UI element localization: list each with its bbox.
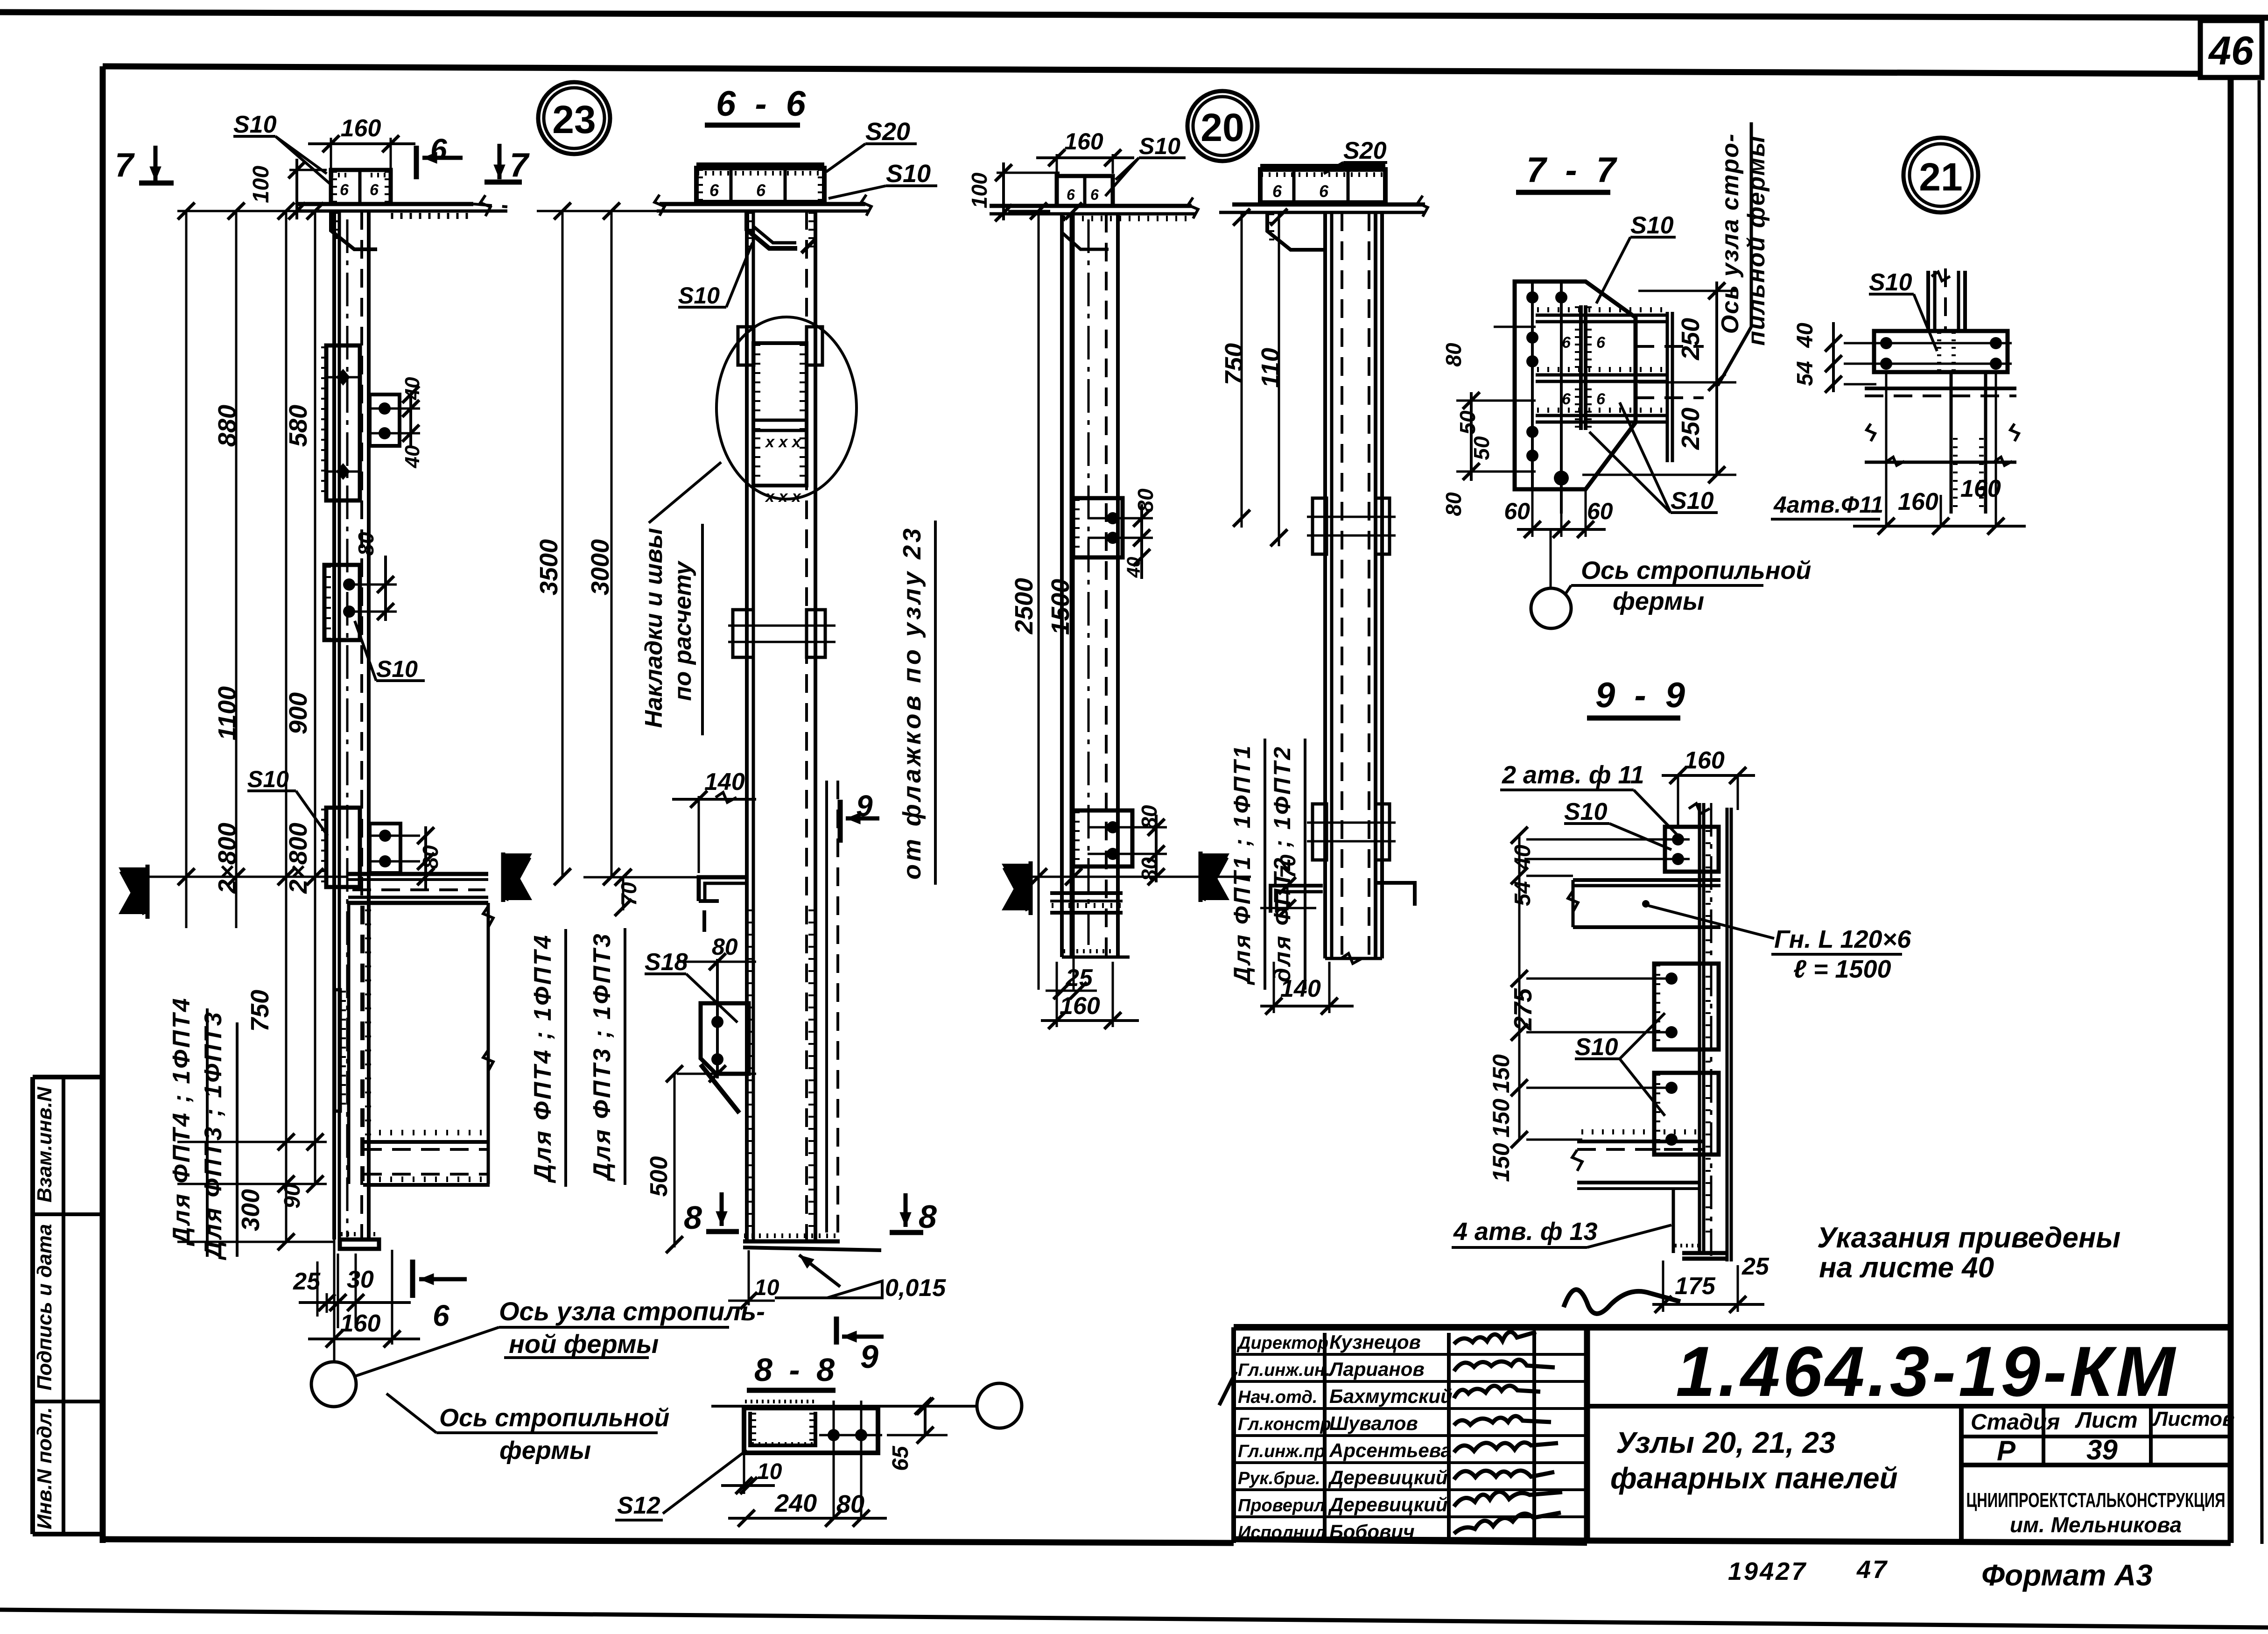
svg-text:по расчету: по расчету	[669, 560, 696, 701]
svg-text:Деревицкий: Деревицкий	[1328, 1466, 1447, 1488]
svg-text:6: 6	[756, 181, 766, 200]
svg-text:фермы: фермы	[1613, 587, 1704, 615]
svg-text:Р: Р	[1997, 1435, 2016, 1466]
svg-text:1500: 1500	[1046, 579, 1074, 635]
svg-text:Нач.отд.: Нач.отд.	[1238, 1387, 1317, 1407]
svg-text:80: 80	[1441, 492, 1466, 516]
svg-text:23: 23	[552, 98, 596, 141]
svg-text:для ФПТ2 ; 1ФПТ2: для ФПТ2 ; 1ФПТ2	[1269, 745, 1295, 982]
svg-text:250: 250	[1677, 408, 1705, 450]
svg-text:140: 140	[704, 768, 745, 796]
svg-text:50: 50	[1455, 410, 1480, 435]
svg-text:Узлы 20, 21, 23: Узлы 20, 21, 23	[1616, 1426, 1836, 1459]
svg-text:S10: S10	[1139, 133, 1180, 159]
svg-text:Арсентьева: Арсентьева	[1329, 1439, 1452, 1461]
svg-text:1100: 1100	[213, 686, 241, 740]
svg-text:Стадия: Стадия	[1971, 1410, 2060, 1435]
svg-text:2×800: 2×800	[213, 823, 241, 894]
svg-text:46: 46	[2208, 28, 2254, 73]
svg-text:3000: 3000	[586, 539, 614, 595]
svg-text:S20: S20	[1343, 137, 1387, 164]
svg-text:4 атв. ф 13: 4 атв. ф 13	[1453, 1218, 1598, 1246]
svg-text:30: 30	[347, 1266, 374, 1293]
svg-text:им. Мельникова: им. Мельникова	[2010, 1513, 2182, 1537]
svg-text:40: 40	[1123, 557, 1144, 578]
svg-text:4атв.Ф11: 4атв.Ф11	[1773, 492, 1883, 518]
svg-text:S10: S10	[1630, 212, 1674, 239]
svg-text:6: 6	[1562, 390, 1571, 408]
svg-text:8: 8	[919, 1198, 937, 1235]
svg-text:40: 40	[401, 377, 424, 400]
svg-text:S20: S20	[865, 118, 910, 146]
svg-text:Деревицкий: Деревицкий	[1328, 1493, 1447, 1515]
svg-text:S10: S10	[1575, 1034, 1618, 1061]
svg-text:Для ФПТ4 ; 1ФПТ4: Для ФПТ4 ; 1ФПТ4	[529, 933, 556, 1183]
svg-text:Подпись и дата: Подпись и дата	[33, 1224, 56, 1391]
svg-text:40: 40	[1510, 845, 1535, 870]
svg-text:240: 240	[774, 1489, 817, 1517]
svg-text:3500: 3500	[535, 539, 563, 595]
svg-text:80: 80	[1137, 805, 1161, 829]
svg-text:S10: S10	[678, 282, 720, 309]
svg-text:60: 60	[1504, 498, 1530, 524]
svg-text:6: 6	[433, 1299, 449, 1332]
svg-text:250: 250	[1677, 318, 1705, 360]
svg-text:160: 160	[1060, 993, 1100, 1020]
svg-text:275: 275	[1509, 988, 1537, 1031]
svg-text:6: 6	[1067, 186, 1075, 203]
svg-text:ℓ = 1500: ℓ = 1500	[1793, 955, 1891, 983]
svg-text:7 - 7: 7 - 7	[1526, 150, 1621, 190]
svg-text:54: 54	[1793, 361, 1818, 386]
svg-text:150: 150	[1488, 1054, 1514, 1093]
svg-text:160: 160	[1960, 475, 2001, 502]
svg-text:50: 50	[1469, 436, 1494, 460]
svg-text:Гл.инж.ин.: Гл.инж.ин.	[1238, 1360, 1330, 1380]
svg-text:54: 54	[1510, 881, 1535, 906]
svg-text:25: 25	[1741, 1253, 1769, 1280]
svg-text:S10: S10	[886, 160, 931, 188]
svg-text:Инв.N подл.: Инв.N подл.	[33, 1407, 56, 1529]
svg-text:100: 100	[249, 166, 274, 203]
svg-text:90: 90	[280, 1183, 305, 1209]
svg-text:Проверил: Проверил	[1238, 1496, 1325, 1515]
svg-text:на листе 40: на листе 40	[1819, 1252, 1994, 1284]
svg-text:65: 65	[888, 1445, 913, 1471]
svg-text:160: 160	[1064, 128, 1103, 155]
svg-text:750: 750	[246, 990, 274, 1032]
svg-text:160: 160	[1684, 747, 1725, 774]
svg-text:6: 6	[370, 181, 379, 199]
svg-text:6 - 6: 6 - 6	[716, 84, 810, 124]
svg-text:100: 100	[967, 172, 991, 208]
svg-text:6: 6	[709, 181, 719, 200]
svg-text:Листов: Листов	[2152, 1408, 2235, 1430]
svg-text:x x x: x x x	[765, 433, 802, 451]
svg-text:110: 110	[1257, 348, 1285, 388]
svg-text:1.464.3-19-КМ: 1.464.3-19-КМ	[1676, 1332, 2178, 1411]
svg-text:Шувалов: Шувалов	[1329, 1412, 1418, 1434]
svg-text:6: 6	[430, 133, 447, 166]
svg-text:6: 6	[1562, 334, 1571, 352]
svg-text:750: 750	[1220, 343, 1248, 385]
svg-text:8: 8	[684, 1199, 702, 1236]
svg-text:40: 40	[401, 445, 424, 468]
svg-text:Бахмутский: Бахмутский	[1329, 1385, 1453, 1407]
svg-text:80: 80	[354, 532, 378, 556]
svg-text:от флажков по узлу 23: от флажков по узлу 23	[898, 526, 926, 880]
svg-text:2×800: 2×800	[284, 823, 312, 894]
svg-text:Гн. L 120×6: Гн. L 120×6	[1774, 925, 1911, 953]
svg-text:39: 39	[2086, 1434, 2118, 1465]
svg-text:900: 900	[284, 692, 312, 734]
svg-text:160: 160	[1898, 488, 1938, 515]
svg-text:7: 7	[115, 147, 135, 184]
svg-text:47: 47	[1856, 1556, 1889, 1584]
svg-text:60: 60	[1587, 498, 1613, 524]
svg-text:580: 580	[284, 405, 312, 447]
svg-text:ЦНИИПРОЕКТСТАЛЬКОНСТРУКЦИЯ: ЦНИИПРОЕКТСТАЛЬКОНСТРУКЦИЯ	[1966, 1489, 2226, 1512]
svg-text:6: 6	[1596, 390, 1606, 408]
svg-text:40: 40	[1793, 323, 1818, 348]
svg-text:6: 6	[1319, 182, 1329, 201]
svg-text:S10: S10	[1564, 798, 1608, 825]
svg-text:Кузнецов: Кузнецов	[1329, 1331, 1421, 1353]
svg-text:9: 9	[856, 789, 873, 823]
svg-text:Гл.констр.: Гл.констр.	[1238, 1415, 1336, 1434]
svg-text:80: 80	[1441, 343, 1466, 367]
svg-text:Формат А3: Формат А3	[1981, 1558, 2153, 1592]
svg-text:10: 10	[757, 1459, 782, 1484]
svg-text:Рук.бриг.: Рук.бриг.	[1238, 1469, 1320, 1488]
svg-text:7: 7	[510, 147, 530, 184]
svg-text:80: 80	[1133, 488, 1158, 513]
svg-text:0,015: 0,015	[885, 1275, 946, 1302]
svg-text:6: 6	[1272, 182, 1282, 201]
svg-text:Директор: Директор	[1236, 1333, 1328, 1353]
svg-text:Лист: Лист	[2075, 1408, 2138, 1433]
svg-text:160: 160	[341, 115, 381, 142]
svg-text:Ось стропильной: Ось стропильной	[1581, 556, 1811, 585]
svg-text:6: 6	[1596, 334, 1606, 352]
svg-text:пильной фермы: пильной фермы	[1743, 135, 1770, 345]
svg-text:19427: 19427	[1728, 1557, 1807, 1585]
svg-text:Для ФПТ3 ; 1ФПТ3: Для ФПТ3 ; 1ФПТ3	[200, 1010, 227, 1260]
svg-text:Указания приведены: Указания приведены	[1817, 1222, 2121, 1254]
svg-text:Взам.инв.N: Взам.инв.N	[33, 1086, 56, 1203]
svg-text:Ось стропильной: Ось стропильной	[439, 1404, 669, 1432]
svg-text:6: 6	[340, 181, 349, 199]
svg-text:S10: S10	[247, 766, 289, 792]
svg-text:Ось узла стро-: Ось узла стро-	[1717, 133, 1744, 334]
svg-text:Для ФПТ1 ; 1ФПТ1: Для ФПТ1 ; 1ФПТ1	[1229, 744, 1255, 986]
svg-text:2 атв. ф 11: 2 атв. ф 11	[1502, 761, 1644, 789]
svg-text:S10: S10	[376, 656, 418, 682]
svg-text:ной фермы: ной фермы	[509, 1329, 659, 1359]
svg-text:Ларианов: Ларианов	[1328, 1358, 1425, 1380]
svg-text:фанарных панелей: фанарных панелей	[1610, 1461, 1898, 1495]
svg-text:160: 160	[340, 1310, 381, 1337]
svg-text:S10: S10	[233, 111, 277, 138]
svg-text:500: 500	[646, 1156, 673, 1197]
svg-text:8 - 8: 8 - 8	[754, 1352, 838, 1388]
svg-text:6: 6	[1090, 186, 1099, 203]
svg-text:Накладки и швы: Накладки и швы	[640, 528, 667, 728]
svg-text:300: 300	[237, 1189, 265, 1231]
svg-text:880: 880	[213, 405, 241, 447]
svg-text:20: 20	[1201, 106, 1244, 149]
svg-text:80: 80	[836, 1490, 864, 1518]
svg-text:S10: S10	[1869, 269, 1912, 296]
svg-text:Гл.инж.пр: Гл.инж.пр	[1238, 1442, 1325, 1461]
svg-text:21: 21	[1919, 155, 1962, 199]
svg-text:Ось узла стропиль-: Ось узла стропиль-	[499, 1296, 765, 1326]
svg-text:9: 9	[860, 1338, 878, 1375]
svg-text:Для ФПТ3 ; 1ФПТ3: Для ФПТ3 ; 1ФПТ3	[589, 932, 616, 1182]
svg-text:150: 150	[1488, 1099, 1514, 1138]
svg-text:150: 150	[1488, 1143, 1514, 1182]
svg-text:175: 175	[1675, 1273, 1716, 1300]
svg-text:S10: S10	[1671, 487, 1714, 514]
svg-text:9 - 9: 9 - 9	[1595, 676, 1690, 715]
svg-text:S12: S12	[617, 1492, 660, 1519]
svg-text:Для ФПТ4 ; 1ФПТ4: Для ФПТ4 ; 1ФПТ4	[168, 996, 195, 1246]
svg-text:фермы: фермы	[499, 1437, 591, 1465]
svg-text:2500: 2500	[1010, 578, 1038, 634]
